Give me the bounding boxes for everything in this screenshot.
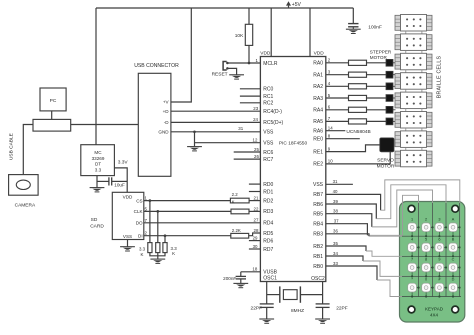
svg-text:100nF: 100nF (368, 24, 382, 30)
svg-text:A: A (452, 217, 455, 221)
svg-text:RB3: RB3 (313, 232, 323, 238)
wire RA1 to resistor (326, 74, 349, 76)
pin +V label (163, 100, 170, 105)
svg-text:+V: +V (163, 100, 170, 105)
wire DI to R4 (144, 235, 231, 237)
wire OSC1 down (266, 282, 268, 304)
svg-text:PIC 18F4550: PIC 18F4550 (279, 140, 308, 146)
regulator U2 MC33269 (81, 145, 115, 176)
crystal X1 8MHZ (280, 286, 304, 313)
resistor R2 2.2K (230, 192, 249, 204)
wire RB5 dark (326, 214, 372, 227)
svg-text:33: 33 (333, 261, 338, 266)
resistor R10 (349, 84, 367, 89)
wire CLK to R3 (144, 210, 231, 212)
keypad button 8 (422, 258, 434, 278)
svg-text:4: 4 (411, 237, 413, 241)
svg-text:RB7: RB7 (313, 192, 323, 198)
svg-text:SD: SD (91, 217, 98, 223)
svg-text:MOTOR: MOTOR (370, 55, 388, 60)
svg-text:OSC2: OSC2 (311, 276, 325, 282)
pin 27 (254, 218, 259, 223)
label SERVO MOTOR (377, 157, 395, 169)
svg-text:PC: PC (50, 98, 57, 104)
wire CS to R2 (144, 200, 231, 202)
pin 5 SD CLK (145, 206, 148, 211)
svg-text:38: 38 (333, 209, 338, 214)
ground pulls (150, 259, 165, 264)
wire RB5 routed (372, 190, 433, 297)
svg-text:RA3: RA3 (313, 96, 323, 102)
pin +D label (163, 109, 170, 114)
resistor R1 10K (235, 24, 253, 45)
svg-text:UCN5804B: UCN5804B (346, 129, 370, 135)
wire RB3 routed row1 (369, 235, 461, 237)
svg-text:BRAILLE CELLS: BRAILLE CELLS (437, 55, 443, 98)
svg-text:K: K (141, 252, 144, 257)
svg-text:CAMERA: CAMERA (15, 202, 36, 208)
svg-text:USB CABLE: USB CABLE (9, 133, 15, 160)
keypad button 7 (408, 258, 420, 278)
resistor R5 3.3K (139, 243, 152, 257)
keypad grid traces (402, 203, 461, 297)
svg-text:6: 6 (438, 237, 440, 241)
svg-text:200nF: 200nF (223, 276, 236, 281)
keypad button 1 (408, 217, 420, 237)
svg-text:24: 24 (253, 117, 258, 122)
keypad button 6 (435, 237, 447, 257)
keypad screw hole (452, 306, 459, 313)
wire R4 to RD5 (249, 233, 261, 236)
wire +5V top rail (96, 7, 353, 9)
keypad button * (408, 278, 420, 298)
node GND junction (193, 130, 196, 133)
wire +V to rail (171, 8, 191, 102)
wire GND to VSS pin31 (171, 131, 261, 133)
svg-text:VSS: VSS (123, 234, 132, 239)
pushbutton RESET (212, 62, 229, 78)
label USB CABLE (9, 133, 15, 160)
block USB hub (33, 119, 71, 131)
keypad button # (435, 278, 447, 298)
keypad button 9 (435, 258, 447, 278)
pin -D label (164, 120, 170, 125)
connector braille cell 6 (395, 112, 432, 131)
svg-text:2: 2 (425, 217, 427, 221)
svg-text:RESET: RESET (212, 72, 228, 78)
wire resistor to connector (367, 120, 387, 122)
wire RB3 dark (326, 234, 369, 236)
wire RA4 to resistor (326, 109, 349, 111)
wire RA5 to resistor (326, 120, 349, 122)
svg-text:36: 36 (333, 229, 338, 234)
ground C5 (315, 318, 330, 323)
svg-text:RE2: RE2 (313, 162, 323, 168)
block SD CARD (112, 192, 144, 239)
svg-text:RD2: RD2 (263, 198, 273, 204)
svg-text:RB5: RB5 (313, 212, 323, 218)
svg-text:26: 26 (254, 154, 259, 159)
wire RD0 stub (249, 183, 261, 185)
wire VDD left (270, 8, 272, 57)
keypad button 2 (422, 217, 434, 237)
wire RC0 stub (240, 88, 261, 90)
svg-text:31: 31 (333, 179, 338, 184)
wire RD6 stub (249, 240, 261, 242)
svg-text:3.3V: 3.3V (118, 159, 129, 165)
wire SD VSS gnd (127, 240, 129, 247)
svg-text:RD1: RD1 (263, 189, 273, 195)
wire reset button to ground (227, 68, 236, 74)
svg-text:OSC1: OSC1 (263, 276, 277, 282)
wire RC1 stub (240, 95, 261, 97)
svg-text:8: 8 (425, 258, 427, 262)
wire RB0 dark (326, 266, 377, 280)
pin numbers U1 right lower (333, 179, 340, 266)
wire resistor to connector (367, 97, 387, 99)
label UCN5804B (346, 129, 370, 135)
svg-text:4X4: 4X4 (430, 313, 439, 318)
wire rail to C1 (352, 8, 354, 23)
svg-text:3.3: 3.3 (95, 167, 102, 172)
svg-text:22PF: 22PF (251, 305, 263, 311)
wire OSC1 to crystal (267, 294, 280, 296)
svg-text:RA5: RA5 (313, 119, 323, 125)
wire resistor to connector (367, 85, 387, 87)
resistor R13 (349, 119, 367, 124)
ground C4 (259, 318, 274, 323)
svg-text:37: 37 (334, 219, 339, 224)
svg-text:9: 9 (438, 258, 440, 262)
wire crystal to OSC2 (300, 294, 322, 296)
keypad button C (449, 258, 461, 278)
capacitor C1 100nF (348, 24, 382, 31)
svg-text:10uF: 10uF (114, 183, 125, 188)
keypad screw hole (452, 205, 459, 212)
svg-text:RD5: RD5 (263, 231, 273, 237)
ground C1 (346, 29, 361, 34)
wire MCLR (227, 62, 260, 64)
wire RA2 to resistor (326, 85, 349, 87)
svg-text:VUSB: VUSB (263, 270, 277, 276)
wire RE0 stub (326, 138, 360, 140)
keypad screw hole (408, 306, 415, 313)
pin GND label (158, 130, 169, 135)
svg-text:CLK: CLK (134, 209, 144, 214)
wire DI pull (164, 236, 166, 243)
svg-text:DT: DT (95, 162, 101, 167)
node CLK tap (156, 210, 159, 213)
wire resistor to connector (367, 62, 387, 64)
svg-text:2.2K: 2.2K (232, 228, 241, 233)
svg-text:10K: 10K (235, 33, 244, 39)
svg-text:RB1: RB1 (313, 254, 323, 260)
svg-text:VSS: VSS (263, 130, 274, 136)
wire hub to USB connector (71, 124, 139, 126)
capacitor C2 10uF (97, 177, 127, 187)
svg-text:KEYPAD: KEYPAD (425, 307, 444, 312)
connector pad stepper 0 (386, 59, 396, 66)
pin numbers U1 right upper (328, 58, 333, 164)
node CS tap (149, 199, 152, 202)
svg-text:18: 18 (252, 267, 257, 272)
pin numbers U1 left (238, 58, 259, 272)
labels U1 right pins (311, 61, 325, 283)
svg-text:+5V: +5V (292, 2, 302, 8)
svg-text:7: 7 (411, 258, 413, 262)
resistor R11 (349, 95, 367, 100)
svg-text:C: C (452, 258, 455, 262)
label U1 name (279, 140, 308, 146)
connector braille cell 7 (395, 131, 432, 150)
wire resistor to connector (367, 74, 387, 76)
svg-text:RD0: RD0 (263, 182, 273, 188)
svg-text:33269: 33269 (92, 156, 105, 161)
wire GND down (194, 132, 196, 147)
op chip U1 PIC18F4550 (260, 57, 325, 282)
wire RB6 dark (326, 204, 377, 219)
svg-text:RA0: RA0 (313, 61, 323, 67)
wire RE1 to servo (326, 145, 380, 152)
svg-text:RB2: RB2 (313, 244, 323, 250)
connector pad stepper 5 (386, 118, 396, 125)
node DI tap (164, 234, 167, 237)
wire RD7 stub (249, 248, 261, 250)
svg-text:RD6: RD6 (263, 238, 273, 244)
wire RB6 routed (376, 185, 446, 297)
wire RB2 routed row2 (366, 251, 461, 256)
connector braille cell 4 (395, 73, 432, 92)
svg-text:D: D (452, 278, 455, 282)
capacitor C3 200nF (223, 276, 246, 283)
svg-text:1: 1 (411, 217, 413, 221)
svg-text:23: 23 (253, 106, 258, 111)
svg-text:K: K (172, 251, 175, 256)
resistor R3 (231, 209, 249, 214)
connector pad stepper 4 (386, 106, 396, 113)
wire regulator gnd (96, 176, 98, 188)
wire +D to RC4 (171, 110, 261, 112)
svg-text:39: 39 (333, 199, 338, 204)
svg-text:VDD: VDD (123, 195, 133, 200)
label SD CARD (90, 217, 104, 229)
connector braille cell 3 (395, 53, 432, 72)
svg-text:8MHZ: 8MHZ (291, 308, 304, 314)
label VDD left (260, 51, 271, 57)
svg-text:RA4: RA4 (313, 108, 323, 114)
svg-text:22PF: 22PF (336, 305, 348, 311)
pin 1 SD CS (145, 196, 148, 201)
svg-text:30: 30 (253, 244, 258, 249)
wire R2 to RD2 (249, 200, 260, 202)
wire CLK pull (157, 211, 159, 242)
wire VSS pin12 (195, 142, 261, 144)
wire RA6 (326, 130, 346, 132)
wire VSS pin31 stub (326, 183, 353, 185)
wire R1 to MCLR (248, 45, 250, 63)
wire rail to R1 (248, 8, 250, 24)
svg-text:VDD: VDD (260, 51, 271, 57)
svg-text:STEPPER: STEPPER (370, 49, 392, 54)
wire RC6 stub (234, 151, 261, 153)
keypad button A (449, 217, 461, 237)
wire VUSB (241, 271, 261, 273)
pin 2 SD DI (145, 231, 148, 236)
svg-text:40: 40 (333, 189, 338, 194)
svg-text:DI: DI (138, 234, 143, 239)
wire RD1 stub (249, 191, 261, 193)
wire RA3 to resistor (326, 97, 349, 99)
svg-text:-D: -D (164, 120, 170, 125)
wire RB0 routed row4 (377, 280, 461, 297)
wire VDD right (309, 8, 311, 57)
keypad button 0 (422, 278, 434, 298)
svg-text:10: 10 (328, 159, 333, 164)
svg-text:VSS: VSS (263, 141, 274, 147)
svg-text:MOTOR: MOTOR (377, 163, 395, 169)
svg-text:RA2: RA2 (313, 84, 323, 90)
capacitor C4 22PF (251, 304, 274, 319)
ground regulator (90, 187, 105, 192)
svg-text:2.2: 2.2 (232, 192, 239, 197)
svg-text:29: 29 (253, 236, 258, 241)
motor M1 servo (380, 138, 394, 152)
svg-text:14: 14 (328, 126, 333, 131)
resistor R7 3.3K (163, 243, 177, 257)
keypad screw hole (408, 205, 415, 212)
svg-text:RB0: RB0 (313, 264, 323, 270)
pin number 30 (253, 244, 258, 249)
connector braille cell 5 (395, 92, 432, 111)
connector J1 USB (134, 63, 179, 176)
keypad button B (449, 237, 461, 257)
labels U1 left pins (263, 61, 283, 282)
svg-text:CARD: CARD (90, 224, 104, 230)
svg-text:RC2: RC2 (263, 101, 273, 107)
block PC (40, 88, 66, 111)
wire RB1 dark (326, 256, 363, 261)
svg-text:RD3: RD3 (263, 209, 273, 215)
svg-text:B: B (452, 237, 455, 241)
wire PC to hub (51, 111, 53, 120)
svg-text:28: 28 (254, 228, 259, 233)
power flag +5V (286, 1, 302, 8)
svg-text:RA6: RA6 (313, 129, 323, 135)
wire RB2 dark (326, 246, 366, 251)
svg-text:31: 31 (238, 126, 243, 131)
wire pull rail (150, 253, 165, 259)
pin 7 SD DO (145, 218, 148, 223)
label BRAILLE CELLS (437, 55, 443, 98)
svg-text:21: 21 (254, 196, 259, 201)
svg-text:RC4(D-): RC4(D-) (263, 109, 282, 115)
svg-text:RC7: RC7 (263, 157, 273, 163)
keypad button 5 (422, 237, 434, 257)
svg-text:RB4: RB4 (313, 222, 323, 228)
keypad button 3 (435, 217, 447, 237)
svg-text:VDD: VDD (314, 51, 325, 57)
wire RA0 to resistor (326, 62, 349, 64)
svg-text:0: 0 (425, 278, 427, 282)
wire RB4 routed (367, 195, 418, 296)
svg-text:34: 34 (333, 251, 338, 256)
connector braille cell 2 (395, 34, 432, 53)
svg-text:SERVO: SERVO (377, 157, 394, 163)
resistor R9 (349, 72, 367, 77)
capacitor C5 22PF (316, 304, 348, 319)
ground reset (229, 74, 244, 79)
resistor R8 (349, 60, 367, 65)
wire RC2 stub (240, 102, 261, 104)
svg-text:25: 25 (254, 147, 259, 152)
pin 22 (254, 206, 259, 211)
svg-text:3: 3 (438, 217, 440, 221)
ground USB (187, 146, 202, 151)
connector pad stepper 3 (386, 95, 396, 102)
label KEYPAD 4X4 (425, 307, 444, 318)
pin 28 (254, 228, 259, 233)
svg-text:35: 35 (333, 241, 338, 246)
ground SD (120, 246, 135, 251)
wire DO to RD4 (144, 222, 261, 224)
wire R3 to RD3 (249, 210, 260, 212)
svg-text:DO: DO (136, 221, 143, 226)
wire RC7 stub (234, 158, 261, 160)
connector braille cell 8 (395, 150, 432, 167)
svg-text:MC: MC (94, 150, 102, 155)
wire RB1 routed row3 (363, 261, 461, 276)
svg-text:RD7: RD7 (263, 247, 273, 253)
wire RE2 to servo (326, 152, 390, 164)
svg-text:RA1: RA1 (313, 73, 323, 79)
resistor R4 2.2K (231, 228, 249, 238)
wire RB7 dark (326, 194, 381, 210)
label STEPPER MOTOR (370, 49, 392, 60)
keypad board (400, 202, 465, 323)
wire RB4 dark (326, 224, 368, 236)
wire OSC2 down (322, 282, 324, 304)
svg-text:RC6: RC6 (263, 150, 273, 156)
wire resistor to connector (367, 109, 387, 111)
svg-text:RC5(D+): RC5(D+) (263, 120, 283, 126)
node MCLR junction (248, 62, 251, 65)
svg-text:12: 12 (253, 137, 258, 142)
svg-text:RB6: RB6 (313, 202, 323, 208)
keypad button D (449, 278, 461, 298)
connector pad stepper 1 (386, 71, 396, 78)
pin 21 (254, 196, 259, 201)
svg-text:RE1: RE1 (313, 149, 323, 155)
wire RB7 routed (381, 180, 460, 297)
svg-text:+D: +D (163, 109, 170, 114)
wire -D to RC5 (171, 121, 261, 123)
keypad button 4 (408, 237, 420, 257)
svg-text:VSS: VSS (313, 182, 324, 188)
block CAMERA (9, 175, 38, 209)
wire +5V rail to regulator input (95, 8, 97, 145)
svg-text:RD4: RD4 (263, 221, 273, 227)
svg-text:RC0: RC0 (263, 87, 273, 93)
svg-text:K: K (232, 199, 235, 204)
svg-text:RC1: RC1 (263, 94, 273, 100)
svg-text:5: 5 (425, 237, 427, 241)
svg-text:RE0: RE0 (313, 137, 323, 143)
ground C3 (233, 283, 248, 288)
svg-text:22: 22 (254, 206, 259, 211)
wire hub to camera (23, 125, 33, 175)
svg-text:27: 27 (254, 218, 259, 223)
svg-text:USB CONNECTOR: USB CONNECTOR (134, 63, 179, 69)
